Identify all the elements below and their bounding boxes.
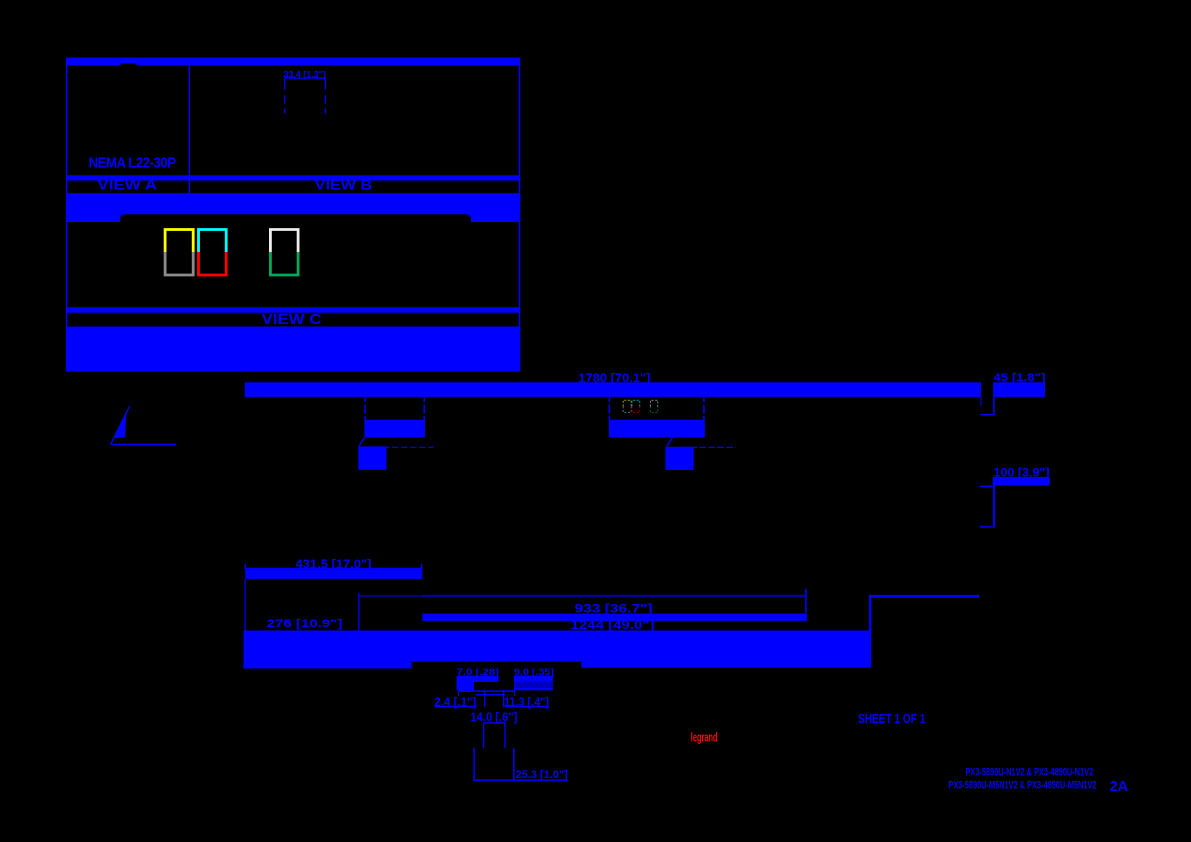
svg-text:PX3-5890U-N1V2 & PX3-4890U-N1V: PX3-5890U-N1V2 & PX3-4890U-N1V2 <box>966 767 1094 779</box>
view A/B divider <box>188 66 190 194</box>
leader arrowhead fill <box>114 406 130 439</box>
mounting body plate <box>244 631 872 669</box>
outlet rect 3 white top <box>270 230 298 253</box>
leader diagonal line <box>111 406 130 444</box>
svg-text:45 [1.8"]: 45 [1.8"] <box>993 372 1045 384</box>
leader horizontal line <box>110 443 176 445</box>
keyhole ext line c <box>503 690 505 707</box>
keyhole slot bottom and 25.3 underline <box>473 779 567 781</box>
svg-text:1244 [49.0"]: 1244 [49.0"] <box>571 620 655 632</box>
outlet rect 2 red bottom <box>199 252 227 275</box>
outlet rect 2 cyan top <box>199 230 227 253</box>
dimension 431.5 line <box>245 567 422 569</box>
svg-text:276 [10.9"]: 276 [10.9"] <box>267 618 343 630</box>
keyhole slot left wall <box>473 748 475 781</box>
svg-text:933 [36.7"]: 933 [36.7"] <box>575 601 653 615</box>
svg-text:VIEW C: VIEW C <box>262 311 322 328</box>
end view dim vertical <box>980 397 982 406</box>
bracket 1 body <box>364 420 425 438</box>
keyhole ext line b <box>484 692 486 708</box>
bracket 2 right hidden line <box>703 398 705 420</box>
hidden outlet rect 1 <box>623 400 631 406</box>
svg-text:VIEW A: VIEW A <box>97 176 157 192</box>
bracket 2 left hidden line <box>608 398 610 420</box>
view C face notch <box>120 214 471 246</box>
bottom blue block <box>66 327 520 372</box>
bracket 2 foot square <box>665 447 693 470</box>
hidden outlet rect 3 <box>651 400 658 406</box>
dimension 1244 line <box>869 595 979 598</box>
svg-text:7.0 [.28]: 7.0 [.28] <box>457 667 499 677</box>
keyhole 9.0 highlight top <box>514 676 553 682</box>
header bar <box>66 58 520 66</box>
dimension 933 right tick <box>805 589 807 613</box>
hidden outlet rect 2 <box>632 400 640 406</box>
bracket 1 foot diagonal <box>359 437 365 446</box>
mounting mid vertical <box>358 593 360 631</box>
end view bottom tick <box>980 414 994 416</box>
100 top tick <box>980 485 993 487</box>
keyhole 7.0 highlight shape <box>457 676 499 691</box>
dim line 276 segment <box>359 595 422 597</box>
dimension 14.0 left extension <box>483 724 485 748</box>
svg-text:2A: 2A <box>1110 778 1129 795</box>
bracket 1 foot square <box>358 446 386 470</box>
bracket 2 dashed leader <box>682 446 737 448</box>
keyhole upper line <box>459 690 515 692</box>
svg-text:NEMA L22-30P: NEMA L22-30P <box>89 155 177 171</box>
svg-text:SHEET 1 OF 1: SHEET 1 OF 1 <box>858 712 925 726</box>
rail bar 933 <box>422 614 807 621</box>
mounting right vertical <box>869 597 871 630</box>
svg-text:PX3-5890U-M5N1V2 & PX3-4890U-M: PX3-5890U-M5N1V2 & PX3-4890U-M5N1V2 <box>948 780 1096 792</box>
svg-text:14.0 [.6"]: 14.0 [.6"] <box>470 710 517 724</box>
outlet rect 1 gray bottom <box>165 252 193 275</box>
dimension 2.4 underline <box>434 706 476 708</box>
keyhole lower line <box>476 694 505 696</box>
dimension 11.3 underline <box>505 706 549 708</box>
end view left edge line <box>993 397 995 415</box>
bracket 1 dashed leader <box>374 446 434 448</box>
outlet rect 3 green bottom <box>270 252 298 275</box>
dimension 933 line <box>422 595 806 597</box>
dimension 14.0 right extension <box>504 724 506 748</box>
svg-text:25.3 [1.0"]: 25.3 [1.0"] <box>516 769 568 781</box>
100 bottom tick <box>980 526 994 528</box>
dimension 33.4 left extension <box>284 79 286 114</box>
bracket 1 left hidden line <box>364 398 366 420</box>
keyhole 9.0 highlight bottom <box>514 688 553 690</box>
header bar notch <box>121 63 137 65</box>
bracket 1 right hidden line <box>423 398 425 420</box>
outlet rect 1 yellow top <box>165 230 193 253</box>
mounting top bar <box>245 569 422 579</box>
dimension 431.5 left tick <box>244 564 246 569</box>
svg-text:VIEW B: VIEW B <box>315 176 373 192</box>
keyhole ext line a <box>458 691 460 696</box>
pdu long bar <box>245 382 981 397</box>
view C blue band <box>66 193 520 222</box>
dimension 33.4 right extension <box>324 79 326 114</box>
keyhole 9.0 highlight mid <box>514 682 553 688</box>
mounting left vertical <box>244 579 246 631</box>
panel outer border <box>67 58 520 371</box>
dimension 14.0 line <box>483 722 506 724</box>
band bar above view C label <box>66 307 520 312</box>
svg-text:9.0 [.35]: 9.0 [.35] <box>514 667 554 677</box>
keyhole ext line d <box>514 690 516 696</box>
100 vertical line <box>993 485 995 527</box>
bracket 2 body <box>609 420 705 438</box>
keyhole slot right wall <box>513 748 515 781</box>
end view bar <box>993 382 1045 397</box>
dimension 431.5 right tick <box>421 564 423 569</box>
dimension 33.4 line <box>284 77 326 79</box>
bracket 2 foot diagonal <box>667 437 673 446</box>
svg-text:legrand: legrand <box>691 731 718 745</box>
100 view bar <box>993 477 1050 486</box>
band bar above view labels <box>66 175 520 180</box>
